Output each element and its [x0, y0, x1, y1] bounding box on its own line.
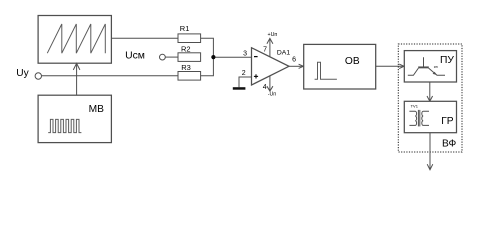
wire Ucm to R2 — [165, 56, 178, 58]
plus sign non-inverting input — [254, 74, 258, 78]
arrowhead into PU — [399, 64, 404, 68]
terminal circle Ucm — [160, 54, 166, 60]
svg-text:ОВ: ОВ — [345, 56, 360, 67]
op-amp DA1 triangle — [252, 48, 290, 85]
arrowhead into OV — [299, 64, 304, 68]
svg-text:R2: R2 — [181, 44, 191, 53]
svg-text:ПУ: ПУ — [440, 55, 454, 66]
svg-text:-Uп: -Uп — [268, 91, 277, 97]
junction node dot — [211, 55, 215, 59]
minus sign inverting input — [254, 56, 258, 58]
svg-text:Uy: Uy — [16, 68, 29, 79]
ground bar — [233, 87, 246, 90]
svg-text:Uсм: Uсм — [125, 51, 145, 62]
dashed box VF — [398, 44, 462, 152]
resistor R2 — [178, 44, 201, 61]
wire MB top to GEN bottom — [76, 63, 78, 95]
wire pin 2 to ground — [239, 77, 252, 87]
svg-text:2: 2 — [242, 70, 246, 77]
svg-text:ГР: ГР — [441, 116, 454, 127]
transistor emitter arrow — [433, 72, 438, 75]
svg-text:6: 6 — [292, 56, 296, 63]
block GEN (sawtooth generator) — [38, 16, 111, 64]
arrow PU to GR — [427, 82, 433, 101]
svg-text:DA1: DA1 — [277, 50, 290, 57]
block GR (transformer output stage) — [404, 101, 456, 132]
svg-text:TV1: TV1 — [411, 103, 419, 108]
transistor icon inside PU — [408, 57, 445, 75]
resistor R1 — [178, 24, 201, 43]
resistor R3 — [178, 63, 201, 80]
svg-text:R1: R1 — [180, 24, 190, 33]
wire Uy to R3 — [42, 75, 179, 77]
terminal circle Uy — [35, 73, 41, 79]
wire R1 right to node — [201, 38, 214, 57]
pin 4 power lead with down arrow — [267, 76, 273, 91]
wire OV to PU — [376, 65, 404, 67]
wire node to op-amp pin 3 — [213, 56, 251, 58]
svg-text:R3: R3 — [181, 63, 191, 72]
block PU (pulse amplifier) — [404, 51, 456, 82]
svg-text:3: 3 — [243, 50, 247, 57]
wire GEN output to R1 — [111, 37, 178, 39]
pin 7 power lead with up arrow — [267, 38, 273, 56]
pulse train waveform inside MB — [48, 119, 81, 132]
block OV (one-shot) — [304, 44, 376, 89]
arrowhead into GEN — [73, 63, 80, 70]
svg-text:МВ: МВ — [89, 104, 104, 115]
wire R3 right to node — [201, 57, 214, 76]
svg-text:+Uп: +Uп — [268, 32, 278, 38]
block MB (multivibrator) — [38, 95, 111, 142]
svg-text:4: 4 — [263, 84, 267, 91]
sawtooth waveform inside GEN — [47, 24, 105, 53]
single pulse waveform inside OV — [315, 62, 337, 79]
transformer TV1 icon — [409, 110, 429, 127]
pin 6 output wire — [289, 65, 304, 67]
svg-text:ип: ип — [434, 65, 438, 69]
svg-text:ВФ: ВФ — [442, 139, 456, 150]
output arrow below GR — [427, 133, 433, 170]
svg-text:7: 7 — [263, 47, 267, 54]
